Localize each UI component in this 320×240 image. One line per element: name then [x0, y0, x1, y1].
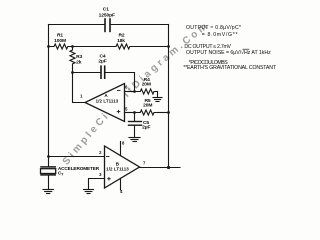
wire op-amp B output: [140, 167, 181, 169]
resistor R4: [135, 89, 158, 94]
resistor R2: [115, 44, 131, 49]
resistor R5: [135, 110, 158, 115]
plus B pin3: [107, 178, 111, 180]
wire C4 to pin6 node: [106, 73, 135, 92]
svg-text:2µF: 2µF: [142, 125, 150, 131]
wire R5 to feedback rail: [157, 112, 169, 114]
node output B: [167, 166, 170, 169]
svg-text:**EARTH'S GRAVITATIONAL CONSTA: **EARTH'S GRAVITATIONAL CONSTANT: [183, 65, 277, 71]
wire R2 to right rail: [131, 46, 169, 48]
wire node X to C4: [73, 72, 101, 74]
svg-text:2k: 2k: [76, 59, 82, 65]
wire pin8 supply stub: [120, 142, 122, 156]
svg-text:100M: 100M: [54, 38, 66, 44]
wire left rail down to accelerometer: [48, 47, 50, 167]
svg-text:2µF: 2µF: [98, 59, 106, 65]
annotation notes: [183, 25, 277, 71]
node R1 left: [47, 45, 50, 48]
svg-text:R3: R3: [76, 54, 82, 60]
labels: [54, 6, 152, 130]
node X: [71, 71, 74, 74]
op-amp U1B: [105, 146, 140, 188]
svg-text:OUTPUT NOISE = 6µV/√Hz AT 1kHz: OUTPUT NOISE = 6µV/√Hz AT 1kHz: [186, 49, 271, 56]
ground accelerometer: [43, 189, 54, 191]
capacitor C1: [104, 19, 106, 31]
wire pin3 input to ground: [89, 179, 105, 190]
capacitor C5: [134, 113, 136, 121]
wire pin2 input from accelerometer: [49, 156, 105, 158]
junction dots: [47, 45, 170, 169]
resistor R1: [49, 44, 71, 49]
svg-text:R2: R2: [118, 33, 124, 39]
svg-text:OUTPUT ≈ 0.8µV/pC*: OUTPUT ≈ 0.8µV/pC*: [186, 25, 241, 31]
node right rail top: [167, 45, 170, 48]
node pin6: [133, 90, 136, 93]
svg-text:R1: R1: [57, 33, 63, 39]
svg-text:ACCELEROMETER: ACCELEROMETER: [58, 166, 100, 171]
svg-text:1/2 LT1113: 1/2 LT1113: [106, 167, 129, 172]
svg-text:20M: 20M: [142, 81, 151, 87]
pin numbers: [80, 84, 146, 194]
wire right feedback rail: [168, 47, 170, 168]
ground pin3: [84, 189, 94, 191]
node R3 top: [71, 45, 74, 48]
label accelerometer: [58, 166, 100, 176]
plus A pin5: [117, 111, 121, 113]
sqrt Hz overline: [243, 48, 250, 50]
wire right corner vertical: [168, 25, 170, 47]
node R5 right: [167, 111, 170, 114]
op-amp U1A: [85, 84, 125, 122]
wire R1 to R2: [70, 46, 115, 48]
svg-text:= 8.0mV/G**: = 8.0mV/G**: [202, 32, 238, 38]
svg-text:20M: 20M: [143, 103, 152, 109]
wire pin5 input: [125, 112, 135, 114]
node accelerometer: [47, 155, 50, 158]
wire top C1 branch left: [49, 24, 105, 26]
svg-text:1/2 LT1113: 1/2 LT1113: [96, 98, 119, 103]
accelerometer transducer: [41, 166, 55, 168]
resistor R3: [70, 47, 75, 73]
op-amp input polarity marks: [106, 91, 121, 181]
wire top C1 branch right: [111, 24, 169, 26]
ground R4: [157, 92, 159, 98]
op-amp A labels: [96, 93, 119, 103]
capacitor C4: [100, 66, 102, 78]
op-amp B labels: [106, 162, 129, 172]
wire accelerometer to ground: [48, 176, 50, 190]
svg-text:18k: 18k: [117, 38, 125, 44]
svg-text:C1: C1: [103, 6, 109, 12]
node pin5: [133, 111, 136, 114]
wire op-amp A output to node X: [73, 73, 86, 103]
ground C5: [134, 126, 136, 138]
svg-text:1250pF: 1250pF: [99, 12, 115, 18]
minus A pin6: [117, 90, 121, 92]
wire pin6 input: [125, 91, 135, 93]
wire pin4 supply stub: [120, 178, 122, 190]
minus B pin2: [106, 156, 110, 158]
wire left corner vertical: [48, 25, 50, 47]
